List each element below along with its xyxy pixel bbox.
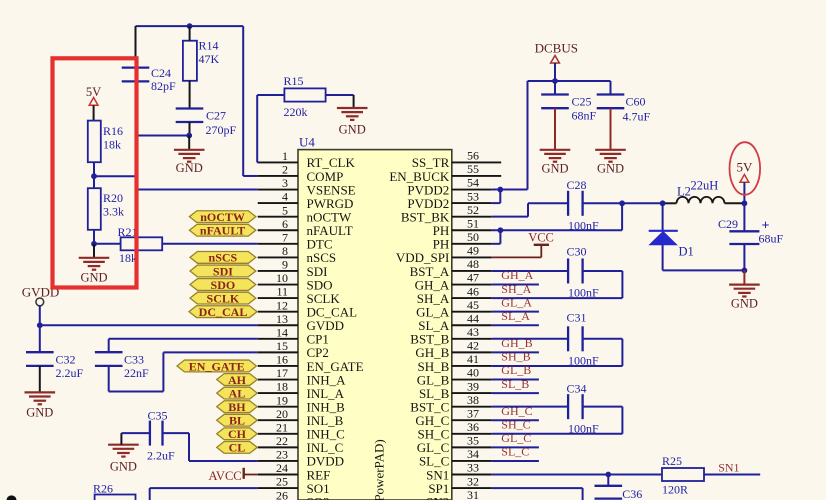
wire output node to C29 [743,203,745,231]
svg-text:SL_A: SL_A [501,309,530,323]
wire VCC to pin 49 VDD_SPI [492,245,542,258]
ground GND right of R15 [337,108,368,137]
svg-text:CL: CL [229,441,246,455]
svg-text:13: 13 [276,312,288,326]
net label SH_A [501,282,531,296]
svg-text:33: 33 [467,461,479,475]
svg-text:GL_C: GL_C [501,431,531,445]
wire R20 bottom [93,230,95,244]
net flag BL at pin 20 [217,414,258,428]
U4 pin 56 SS_TR stub and number [412,149,501,171]
svg-text:GL_A: GL_A [501,295,532,309]
svg-text:C33: C33 [124,353,144,367]
net flag CH at pin 21 [217,427,258,441]
svg-text:SCLK: SCLK [207,291,240,305]
wire C34 right jog to SH pin 36 [492,407,623,434]
svg-text:R16: R16 [103,124,123,138]
U4 pin 20 INL_B stub and number [258,407,344,428]
net flag DC_CAL at pin 12 [189,305,257,319]
wire C29 bottom [743,244,745,270]
svg-text:AVCC: AVCC [209,469,242,483]
svg-text:10: 10 [276,271,288,285]
svg-text:15: 15 [276,339,288,353]
svg-text:SH_B: SH_B [501,350,530,364]
resistor R21 [118,225,163,265]
highlight ellipse around 5V [730,142,761,195]
svg-text:19: 19 [276,393,288,407]
wire COMP top rail [136,25,244,27]
svg-text:20: 20 [276,407,288,421]
svg-text:GND: GND [26,406,53,420]
wire pin 34 SL_C [492,460,539,462]
wire D1 to C29 bottom rail [663,269,745,271]
svg-text:5V: 5V [737,160,754,175]
svg-text:41: 41 [467,352,479,366]
inductor L2 [677,179,725,204]
svg-text:49: 49 [467,244,479,258]
net flag SDO at pin 10 [190,278,256,292]
junction VSENSE divider [91,173,97,179]
U4 pin 39 SL_B stub and number [419,379,492,401]
U4 pin 35 GL_C stub and number [417,434,492,456]
svg-text:40: 40 [467,366,479,380]
junction top rail / R14 [187,23,193,29]
svg-text:SO2: SO2 [307,494,330,500]
svg-text:GL_B: GL_B [501,363,531,377]
svg-text:nFAULT: nFAULT [200,224,245,238]
power port DCBUS [535,41,578,64]
wire COMP horizontal to pin 2 [243,175,258,177]
net flag AH at pin 17 [217,373,258,387]
wire DCBUS rail [528,80,611,82]
svg-text:270pF: 270pF [206,123,237,137]
U4 pin 26 SO2 stub and number [258,488,330,500]
svg-text:31: 31 [467,488,479,500]
capacitor C28 [567,178,600,233]
U4 pin 24 REF stub and number [258,461,331,482]
wire C27 junction to ground [188,136,190,150]
U4 pin 14 CP1 stub and number [258,325,329,346]
svg-text:16: 16 [276,353,288,367]
svg-text:7: 7 [282,230,288,244]
svg-text:C30: C30 [567,245,587,259]
U4 pin 15 CP2 stub and number [258,339,329,360]
wire pin 42 GH_B [492,351,539,353]
svg-text:GND: GND [541,162,568,176]
capacitor C25 [541,81,596,150]
net flag AL at pin 18 [217,386,258,400]
svg-text:22uH: 22uH [691,179,719,193]
ground GND below C60 [595,150,626,176]
svg-text:C36: C36 [622,487,642,500]
power port 5V (left) [86,85,101,105]
svg-text:BL: BL [229,414,245,428]
svg-text:45: 45 [467,298,479,312]
svg-text:GND: GND [176,161,203,175]
svg-text:SL_C: SL_C [501,445,529,459]
svg-text:46: 46 [467,284,479,298]
svg-text:(PowerPAD): (PowerPAD) [372,439,387,500]
net flag SCLK at pin 11 [190,291,256,305]
net label GH_A [501,268,533,282]
svg-text:5: 5 [282,203,288,217]
resistor R26 [93,482,136,500]
svg-text:48: 48 [467,257,479,271]
svg-text:C32: C32 [56,353,76,367]
wire C35 to pin 23 DVDD [163,433,258,461]
wire pin 33 SN1 to R25 [492,474,662,476]
wire 5V to R16 [93,105,95,120]
wire pin 40 GL_B [492,379,539,381]
svg-text:47K: 47K [199,52,220,66]
svg-text:VCC: VCC [528,231,554,245]
svg-text:18k: 18k [119,251,137,265]
svg-text:220k: 220k [284,105,308,119]
power port GVDD [22,285,60,306]
net label SH_C [501,418,530,432]
svg-text:47: 47 [467,271,479,285]
svg-text:42: 42 [467,339,479,353]
junction R20/R21/GND [91,241,97,247]
ground GND below R20 [79,258,110,285]
U4 pin 23 DVDD stub and number [258,448,344,469]
ground GND below C27 [174,150,205,175]
U4 pin 45 GL_A stub and number [416,298,492,320]
svg-text:4.7uF: 4.7uF [623,110,651,124]
svg-text:6: 6 [282,217,288,231]
svg-text:GH_A: GH_A [501,268,533,282]
junction D1 top [660,200,666,206]
svg-text:24: 24 [276,461,288,475]
svg-text:56: 56 [467,149,479,163]
wire GVDD down [39,306,41,325]
capacitor C24 [122,66,176,93]
net label SL_A [501,309,530,323]
U4 pin 36 SH_C stub and number [418,420,492,442]
svg-text:EN_GATE: EN_GATE [189,359,245,373]
svg-text:53: 53 [467,189,479,203]
wire pin 54 PVDD2 [492,189,528,191]
svg-text:26: 26 [276,488,288,500]
svg-text:43: 43 [467,325,479,339]
U4 pin 16 EN_GATE stub and number [258,353,364,374]
net label SN1 [718,461,739,475]
U4 vertical text (PowerPAD) [372,439,387,500]
svg-text:L2: L2 [677,185,691,199]
U4 pin 8 nSCS stub and number [258,244,336,265]
diode D1 [649,231,694,259]
resistor R16 [88,121,123,163]
wire C31 right jog to SH pin 41 [492,339,623,366]
ground GND left of C35 [108,445,139,474]
svg-text:3: 3 [282,176,288,190]
svg-text:SN2: SN2 [426,494,449,500]
svg-text:22nF: 22nF [124,366,149,380]
power port AVCC [209,468,244,483]
svg-text:68uF: 68uF [759,232,784,246]
wire pin 37 GH_C [492,419,539,421]
wire pin 48 BST to C30 [492,270,568,272]
wire pin 25 SO1 [150,488,258,500]
net label GH_B [501,336,532,350]
svg-text:4: 4 [282,190,288,204]
wire C24 top [135,26,137,68]
wire C29 to ground [743,270,745,284]
capacitor C34 [567,382,600,436]
U4 pin 55 EN_BUCK stub and number [389,162,501,184]
wire C27 bottom [189,122,191,136]
net label GL_C [501,431,531,445]
svg-text:37: 37 [467,406,479,420]
net label GH_C [501,404,532,418]
junction output node [742,200,748,206]
svg-text:52: 52 [467,203,479,217]
wire DCBUS stem [554,63,556,81]
svg-text:GND: GND [597,162,624,176]
svg-text:GND: GND [731,297,758,311]
capacitor C60 [597,81,651,150]
U4 pin 48 BST_A stub and number [410,257,492,279]
svg-text:55: 55 [467,162,479,176]
wire R14 top [189,26,191,41]
svg-text:C35: C35 [148,409,168,423]
svg-text:25: 25 [276,475,288,489]
svg-text:R26: R26 [93,482,113,496]
svg-text:GH_C: GH_C [501,404,532,418]
wire D1 cathode [662,203,664,231]
wire pin 43 BST to C31 [492,338,568,340]
svg-text:R25: R25 [662,454,682,468]
wire C24-bottom to C27-bottom GND net [136,135,190,137]
junction C27 GND [186,133,192,139]
wire R16 to R20 [93,176,95,188]
wire pin 47 GH_A [492,284,539,286]
net flag nFAULT at pin 6 [189,224,255,238]
resistor R15 [284,74,326,119]
wire switch node to diode and L2 [663,202,677,204]
U4 pin 37 GH_C stub and number [415,406,491,428]
svg-text:U4: U4 [299,135,315,150]
U4 pin 12 DC_CAL stub and number [258,298,357,319]
wire C32 to ground [39,366,41,393]
junction DCBUS rail [552,78,558,84]
wire PH line to pin 51 [492,229,622,231]
U4 pin 38 BST_C stub and number [410,393,492,415]
red highlight rectangle [53,58,137,287]
wire pins 54-53 tie [499,190,501,204]
U4 pin 7 DTC stub and number [258,230,333,251]
U4 pin 43 BST_B stub and number [410,325,492,347]
svg-text:22: 22 [276,434,288,448]
svg-text:14: 14 [276,325,288,339]
decorative blob [7,495,17,500]
svg-text:C24: C24 [151,66,171,80]
svg-text:C34: C34 [567,382,587,396]
svg-text:8: 8 [282,244,288,258]
wire pin 38 BST to C34 [492,406,568,408]
wire R16 bottom [93,162,95,176]
U4 pin 49 VDD_SPI stub and number [396,244,492,266]
U4 pin 6 nFAULT stub and number [258,217,353,238]
U4 pin 34 SL_C stub and number [419,447,492,469]
U4 pin 51 PH stub and number [433,216,492,238]
net label SH_B [501,350,530,364]
svg-text:GH_B: GH_B [501,336,532,350]
wire L2 to output node [725,202,745,204]
svg-text:GND: GND [80,271,107,285]
svg-text:SH_C: SH_C [501,418,530,432]
svg-text:18k: 18k [103,138,121,152]
svg-text:38: 38 [467,393,479,407]
U4 pin 54 PVDD2 stub and number [407,176,491,198]
svg-text:35: 35 [467,434,479,448]
svg-text:23: 23 [276,448,288,462]
wire pins 51-50 PH tie [492,230,501,244]
wire C28 right to switch node [583,202,663,204]
svg-text:1: 1 [282,149,288,163]
junction C29 bottom [742,268,748,274]
svg-text:AH: AH [228,373,247,387]
svg-text:R15: R15 [284,74,304,88]
svg-text:68nF: 68nF [572,109,597,123]
U4 pin 31 SN2 stub and number [426,488,492,500]
wire C24 bottom (under red box edge) [135,81,137,135]
ground GND below C29 [729,285,760,311]
U4 pin 18 INL_A stub and number [258,380,345,401]
capacitor C29 (polarized) [718,217,784,246]
capacitor C32 [26,352,84,380]
U4 pin 52 BST_BK stub and number [401,203,492,225]
U4 pin 32 SP1 stub and number [428,474,491,496]
svg-text:36: 36 [467,420,479,434]
svg-text:17: 17 [276,366,288,380]
U4 pin 13 GVDD stub and number [258,312,344,333]
power port 5V (right) [737,160,754,183]
svg-text:DC_CAL: DC_CAL [199,305,248,319]
U4 pin 4 PWRGD stub and number [258,190,354,211]
U4 pin 3 VSENSE stub and number [258,176,356,197]
net label GL_A [501,295,532,309]
net flag EN_GATE at pin 16 [177,359,256,373]
wire GVDD to C32 [39,325,41,352]
capacitor C31 [567,311,600,368]
resistor R14 [183,39,220,81]
wire D1 anode [662,245,664,271]
wire pin 53 PVDD2 [492,202,501,204]
junction pin 54 [497,187,503,193]
svg-text:54: 54 [467,176,479,190]
svg-text:D1: D1 [679,245,694,259]
wire C30 right jog to SH pin 46 [492,271,623,298]
svg-text:CH: CH [228,427,247,441]
svg-text:SN1: SN1 [718,461,739,475]
svg-text:2.2uF: 2.2uF [56,366,84,380]
svg-text:120R: 120R [662,483,688,497]
capacitor C33 [95,352,149,380]
svg-text:18: 18 [276,380,288,394]
wire AVCC to pin 24 REF [244,474,258,476]
ground GND below C25 [540,150,571,176]
wire pin 32 SP1 [492,488,583,500]
svg-text:32: 32 [467,474,479,488]
net flag SDI at pin 9 [190,264,256,278]
wire R25 right [704,474,760,476]
wire R15 right to ground [326,95,354,108]
svg-text:51: 51 [467,216,479,230]
U4 pin 5 nOCTW stub and number [258,203,352,224]
svg-text:C29: C29 [718,217,738,231]
junction GVDD [37,322,43,328]
svg-text:2.2uF: 2.2uF [147,449,175,463]
U4 pin 50 PH stub and number [433,230,492,252]
svg-text:GND: GND [339,123,366,137]
wire C33 top to pin 14 CP1 [109,339,258,352]
svg-text:nOCTW: nOCTW [200,210,245,224]
U4 pin 44 SL_A stub and number [418,311,492,333]
svg-text:DCBUS: DCBUS [535,41,578,56]
wire PH drop [621,203,623,230]
svg-text:AL: AL [229,386,246,400]
svg-text:44: 44 [467,311,479,325]
svg-text:R20: R20 [103,191,123,205]
U4 pin 22 INL_C stub and number [258,434,344,455]
net label SL_C [501,445,529,459]
U4 pin 42 GH_B stub and number [415,339,491,361]
svg-text:3.3k: 3.3k [103,205,124,219]
wire DCBUS drop to PVDD2 [527,81,529,190]
wire pin 35 GL_C [492,446,539,448]
net flag CL at pin 22 [217,441,258,455]
wire junction to ground [93,244,95,258]
svg-text:21: 21 [276,420,288,434]
U4 pin 2 COMP stub and number [258,163,344,184]
junction C36 tap [605,472,611,478]
junction C28/PH [619,200,625,206]
ground GND below C32 [25,392,56,419]
svg-text:12: 12 [276,298,288,312]
svg-text:C27: C27 [206,109,226,123]
svg-text:11: 11 [276,285,288,299]
wire divider junction to VSENSE [94,175,136,177]
U4 pin 25 SO1 stub and number [258,475,330,496]
svg-text:C25: C25 [572,95,592,109]
U4 pin 17 INH_A stub and number [258,366,346,387]
wire pin 52 BST_BK jog [492,203,568,216]
wire ground to C35 [121,433,149,445]
wire C33 bottom jog to pin 15 CP2 [109,352,258,391]
svg-text:SDI: SDI [213,264,233,278]
U4 pin 47 GH_A stub and number [415,271,492,293]
svg-text:39: 39 [467,379,479,393]
svg-text:9: 9 [282,258,288,272]
capacitor C35 [147,409,175,463]
wire GVDD to pin 13 [40,324,258,326]
net flag nSCS at pin 8 [190,251,256,265]
net flag nOCTW at pin 5 [189,210,255,224]
resistor R20 [88,188,124,230]
wire C36 stem [607,475,609,486]
svg-text:R14: R14 [199,39,219,53]
resistor R25 [662,454,704,497]
wire junction to R21 [94,243,121,245]
U4 pin 46 SH_A stub and number [417,284,492,306]
power port VCC [528,231,554,245]
svg-text:C31: C31 [567,311,587,325]
op-amp U4 gate driver IC body [298,135,452,500]
wire pin 44 SL_A [492,324,539,326]
svg-text:C28: C28 [567,178,587,192]
capacitor C36 [595,486,643,500]
